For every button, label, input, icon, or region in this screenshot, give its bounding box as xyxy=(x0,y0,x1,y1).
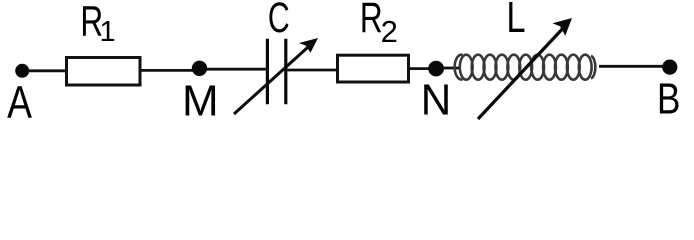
wire M to C xyxy=(206,68,266,71)
svg-text:N: N xyxy=(421,76,451,125)
resistor R2 xyxy=(338,55,409,82)
svg-text:M: M xyxy=(182,77,219,126)
capacitor C right plate xyxy=(284,39,287,105)
svg-text:A: A xyxy=(7,76,32,126)
capacitor C left plate xyxy=(266,39,269,105)
node B xyxy=(662,60,677,75)
svg-text:L: L xyxy=(506,0,525,42)
node M xyxy=(192,61,207,76)
wire L to B xyxy=(599,65,663,68)
node N xyxy=(428,61,444,77)
svg-text:B: B xyxy=(657,75,680,124)
node A xyxy=(15,64,29,78)
wire C to R2 xyxy=(288,69,339,72)
svg-text:1: 1 xyxy=(100,16,116,48)
variable inductor arrow shaft xyxy=(478,25,567,120)
svg-text:C: C xyxy=(268,0,290,41)
svg-text:2: 2 xyxy=(381,14,398,49)
variable capacitor arrowhead xyxy=(299,38,318,53)
variable inductor arrowhead xyxy=(553,18,573,36)
inductor L coil xyxy=(455,55,596,80)
wire R2 to N xyxy=(410,67,430,70)
svg-text:R: R xyxy=(360,0,383,41)
resistor R1 xyxy=(67,58,141,86)
wire R1 to M xyxy=(141,69,194,72)
wire A to R1 xyxy=(27,69,66,72)
wire N to L xyxy=(443,67,459,70)
variable capacitor arrow shaft xyxy=(234,44,312,115)
